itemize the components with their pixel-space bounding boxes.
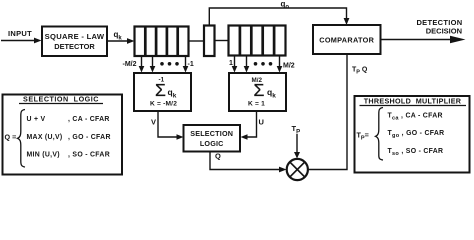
legend selection logic box bbox=[3, 95, 123, 175]
wire Tp to multiplier bbox=[294, 134, 300, 159]
svg-text:MAX (U,V): MAX (U,V) bbox=[27, 134, 63, 141]
delay line right register cells bbox=[229, 26, 286, 56]
svg-text:Tgo , GO - CFAR: Tgo , GO - CFAR bbox=[388, 130, 445, 139]
svg-text:Σ: Σ bbox=[155, 80, 166, 100]
dots left taps bbox=[160, 62, 179, 66]
svg-text:qk: qk bbox=[168, 87, 177, 100]
wire U to selection logic bbox=[241, 111, 257, 140]
wire left register to test cell bbox=[189, 40, 205, 42]
svg-text:-M/2: -M/2 bbox=[123, 61, 137, 68]
delay line left register cells bbox=[135, 27, 189, 57]
sum block right U bbox=[229, 73, 286, 111]
svg-text:THRESHOLD MULTIPLIER: THRESHOLD MULTIPLIER bbox=[364, 97, 462, 106]
cell under test bbox=[204, 26, 215, 57]
svg-text:TP: TP bbox=[292, 124, 301, 135]
svg-text:Σ: Σ bbox=[254, 80, 265, 100]
brace legend left bbox=[18, 110, 26, 168]
svg-text:Tca , CA - CFAR: Tca , CA - CFAR bbox=[388, 113, 443, 122]
svg-text:V: V bbox=[151, 118, 156, 127]
svg-text:, SO - CFAR: , SO - CFAR bbox=[68, 152, 110, 159]
wire test cell to right register bbox=[215, 40, 229, 42]
svg-text:Q =: Q = bbox=[5, 133, 17, 142]
svg-text:DECISION: DECISION bbox=[426, 27, 462, 36]
svg-text:K = 1: K = 1 bbox=[248, 101, 265, 108]
svg-text:qo: qo bbox=[281, 0, 290, 11]
svg-text:INPUT: INPUT bbox=[8, 29, 32, 38]
svg-text:Tso , SO - CFAR: Tso , SO - CFAR bbox=[388, 148, 444, 157]
svg-text:Q: Q bbox=[215, 152, 221, 161]
svg-text:LOGIC: LOGIC bbox=[200, 139, 224, 148]
block selection logic bbox=[184, 125, 241, 152]
wire TpQ from multiplier to comparator bbox=[308, 54, 347, 170]
tap arrows right register bbox=[232, 56, 283, 73]
legend threshold multiplier box bbox=[355, 96, 470, 173]
dots right taps bbox=[254, 62, 273, 66]
wire Q to multiplier bbox=[210, 152, 287, 173]
svg-text:U + V: U + V bbox=[27, 116, 46, 123]
svg-text:-1: -1 bbox=[188, 61, 194, 68]
svg-text:U: U bbox=[259, 118, 264, 127]
block comparator bbox=[313, 25, 381, 54]
wire input arrow bbox=[1, 38, 42, 44]
svg-text:COMPARATOR: COMPARATOR bbox=[319, 36, 374, 45]
block square-law detector U1 bbox=[42, 27, 107, 57]
svg-text:SQUARE - LAW: SQUARE - LAW bbox=[45, 32, 105, 41]
sum block left V bbox=[134, 73, 191, 111]
multiplier X1 bbox=[287, 159, 308, 180]
svg-text:SELECTION LOGIC: SELECTION LOGIC bbox=[23, 95, 99, 104]
svg-text:MIN (U,V): MIN (U,V) bbox=[27, 152, 60, 159]
svg-text:TP Q: TP Q bbox=[352, 67, 368, 76]
wire V to selection logic bbox=[158, 111, 184, 140]
svg-text:SELECTION: SELECTION bbox=[190, 129, 233, 138]
svg-text:M/2: M/2 bbox=[283, 63, 295, 70]
wire q0 from test cell to comparator bbox=[209, 8, 349, 26]
svg-text:, GO - CFAR: , GO - CFAR bbox=[68, 134, 111, 141]
svg-text:K = -M/2: K = -M/2 bbox=[150, 101, 177, 108]
brace legend right bbox=[376, 108, 384, 161]
svg-text:qk: qk bbox=[267, 87, 276, 100]
svg-text:DETECTOR: DETECTOR bbox=[54, 42, 95, 51]
svg-text:1: 1 bbox=[229, 60, 233, 67]
tap arrows left register bbox=[139, 56, 189, 73]
wire detection decision output arrow bbox=[381, 36, 466, 44]
svg-text:qk: qk bbox=[114, 30, 123, 41]
svg-text:TP=: TP= bbox=[357, 131, 369, 142]
svg-text:, CA - CFAR: , CA - CFAR bbox=[68, 116, 110, 123]
wire detector to delay line bbox=[107, 38, 135, 44]
